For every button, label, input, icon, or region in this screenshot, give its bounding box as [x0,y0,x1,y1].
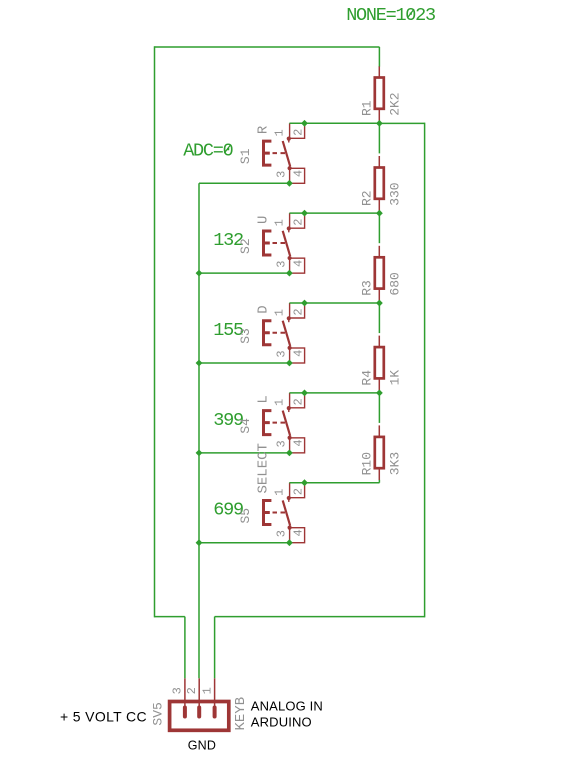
svg-text:2: 2 [292,219,306,226]
svg-text:4: 4 [292,170,306,177]
svg-text:R1: R1 [359,100,374,116]
svg-text:3: 3 [275,350,289,357]
svg-text:ADC=0: ADC=0 [183,140,232,161]
svg-text:1: 1 [273,489,287,496]
svg-text:L: L [255,395,271,403]
svg-text:2: 2 [292,129,306,136]
svg-text:1: 1 [273,129,287,136]
svg-text:3: 3 [275,261,289,268]
svg-text:S3: S3 [238,328,253,344]
svg-text:3: 3 [275,530,289,537]
svg-text:2: 2 [292,398,306,405]
svg-text:R10: R10 [359,452,374,475]
svg-text:1: 1 [273,309,287,316]
svg-text:4: 4 [292,350,306,357]
svg-text:1: 1 [200,687,214,694]
svg-text:4: 4 [292,529,306,536]
svg-text:SELECT: SELECT [255,443,271,493]
svg-text:SV5: SV5 [151,702,166,725]
svg-text:NONE=1023: NONE=1023 [346,5,435,26]
svg-text:3K3: 3K3 [387,452,402,475]
svg-text:R: R [255,125,271,134]
svg-text:S4: S4 [238,418,253,434]
svg-text:2K2: 2K2 [387,92,402,115]
svg-text:4: 4 [292,439,306,446]
svg-text:R3: R3 [359,280,374,296]
svg-text:R4: R4 [359,370,374,386]
svg-text:3: 3 [275,440,289,447]
svg-text:GND: GND [188,739,216,753]
svg-text:2: 2 [292,308,306,315]
svg-text:S5: S5 [238,508,253,524]
svg-text:ARDUINO: ARDUINO [251,715,312,730]
svg-text:D: D [255,305,271,313]
svg-text:R2: R2 [359,190,374,206]
svg-text:1: 1 [273,219,287,226]
svg-text:330: 330 [387,182,402,205]
svg-text:1K: 1K [387,370,402,386]
svg-text:S1: S1 [238,148,253,164]
svg-text:ANALOG IN: ANALOG IN [251,699,323,714]
svg-text:2: 2 [292,488,306,495]
svg-text:2: 2 [185,687,199,694]
svg-text:3: 3 [171,687,185,694]
svg-text:680: 680 [387,272,402,295]
svg-text:4: 4 [292,260,306,267]
svg-text:1: 1 [273,399,287,406]
svg-text:+ 5 VOLT CC: + 5 VOLT CC [60,708,147,724]
svg-text:S2: S2 [238,238,253,254]
svg-text:U: U [255,216,271,224]
svg-text:KEYB: KEYB [233,697,249,731]
svg-text:3: 3 [275,171,289,178]
